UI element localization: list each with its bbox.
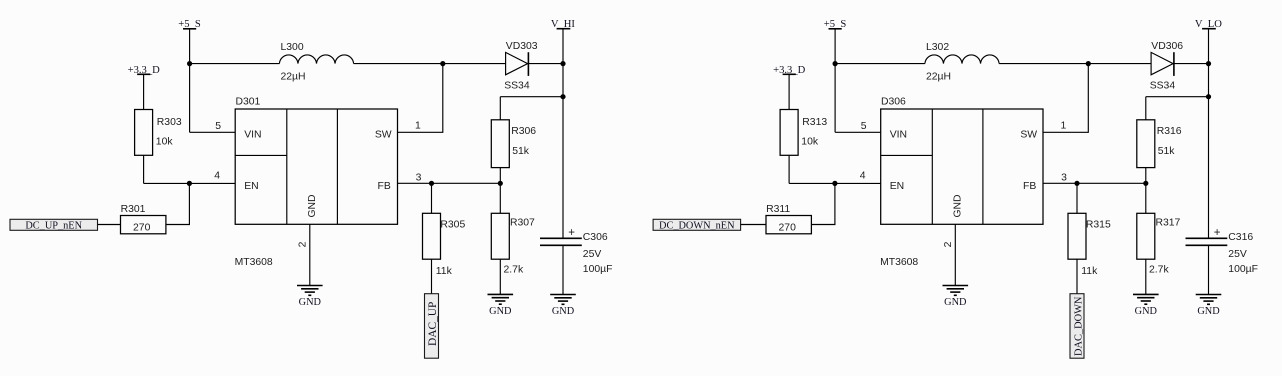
wire FB to R315 [1076,183,1078,213]
svg-text:SS34: SS34 [1150,80,1176,91]
svg-text:GND: GND [953,194,964,217]
svg-text:11k: 11k [1081,266,1098,277]
svg-text:MT3608: MT3608 [235,257,273,268]
wire label to R311 [741,224,766,226]
resistor R316 51k [1137,120,1182,168]
svg-text:3: 3 [1061,172,1067,183]
svg-text:C306: C306 [583,232,608,243]
wire VIN pin 5 horizontal [835,131,881,133]
svg-text:GND: GND [1197,306,1220,317]
wire V_HI to R306 [500,96,563,98]
svg-text:5: 5 [215,121,221,132]
svg-text:DAC_UP: DAC_UP [427,302,439,346]
svg-text:R313: R313 [802,117,827,128]
svg-text:51k: 51k [512,146,530,157]
power flag +5_S [824,19,847,30]
wire +5_S vertical to VIN [189,29,191,133]
svg-text:R315: R315 [1086,219,1111,230]
wire +3.3_D to R313 [788,74,790,109]
svg-text:51k: 51k [1158,146,1176,157]
wire C306 to ground [562,245,564,294]
net label DC_DOWN_nEN [653,219,741,231]
wire FB pin 3 horizontal [1043,182,1146,184]
svg-text:GND: GND [489,306,512,317]
svg-text:1: 1 [415,121,421,132]
svg-text:DC_DOWN_nEN: DC_DOWN_nEN [659,221,735,232]
wire EN pin 4 horizontal [789,182,881,184]
junction node +5_S / inductor [187,61,192,66]
wire R313 to EN [788,155,790,183]
wire V_HI vertical to capacitor [562,29,564,239]
svg-text:4: 4 [860,170,866,181]
power flag +3.3_D [773,65,806,76]
op-amp / converter IC D306 MT3608 [880,97,1043,268]
svg-text:VD306: VD306 [1151,41,1183,52]
ground GND under D306 [943,286,969,309]
resistor R305 11k [423,213,466,277]
svg-text:GND: GND [307,194,318,217]
wire FB to R305 [431,183,433,213]
junction FB / R315 [1074,181,1079,186]
wire diode to V_LO [1174,63,1209,65]
svg-text:L300: L300 [281,42,304,53]
resistor R315 11k [1068,213,1111,277]
wire inductor to diode [354,63,506,65]
junction node SW [440,61,445,66]
svg-text:FB: FB [1023,181,1036,192]
ground GND under C306 [550,295,576,318]
wire V_LO vertical to capacitor [1208,29,1210,239]
resistor R311 270 [766,204,811,234]
resistor R307 2.7k [491,213,535,275]
svg-text:2: 2 [298,241,309,247]
inductor L300 22uH [279,42,353,82]
svg-text:10k: 10k [801,137,819,148]
capacitor C306 25V 100uF [540,227,612,275]
svg-text:R306: R306 [511,126,536,137]
svg-text:R316: R316 [1157,126,1182,137]
svg-text:VIN: VIN [890,130,907,141]
svg-text:R301: R301 [121,204,146,215]
svg-text:GND: GND [1135,306,1158,317]
wire C316 to ground [1208,245,1210,294]
wire diode to V_HI [528,63,563,65]
svg-text:25V: 25V [583,249,602,260]
wire EN pin 4 horizontal [144,182,236,184]
wire FB to R307 [499,183,501,213]
wire GND pin 2 [309,224,311,285]
junction node +5_S / inductor [833,61,838,66]
op-amp / converter IC D301 MT3608 [235,97,398,268]
resistor R301 270 [121,204,166,234]
svg-text:+: + [568,227,575,239]
svg-text:100µF: 100µF [583,264,613,275]
svg-text:270: 270 [133,222,151,233]
svg-text:VD303: VD303 [506,41,538,52]
svg-text:5: 5 [861,121,867,132]
svg-text:FB: FB [378,181,391,192]
resistor R303 10k [135,110,182,156]
wire SW pin 1 [398,64,443,133]
wire R305 to DAC_UP [431,259,433,294]
svg-text:MT3608: MT3608 [880,257,918,268]
wire R316 to FB [1145,168,1147,184]
svg-text:L302: L302 [926,42,949,53]
ground GND under R317 [1133,294,1159,317]
svg-text:22µH: 22µH [926,72,951,83]
svg-text:SW: SW [375,130,392,141]
junction EN node [187,181,192,186]
wire R306 to FB [499,168,501,184]
wire inductor to diode [999,63,1151,65]
svg-text:22µH: 22µH [281,72,306,83]
junction node SW [1086,61,1091,66]
power flag +3.3_D [128,65,161,76]
wire +3.3_D to R303 [143,74,145,109]
junction V_HI / feedback divider [560,94,565,99]
svg-text:100µF: 100µF [1228,264,1258,275]
wire down to R316 [1145,97,1147,120]
wire R303 to EN [143,155,145,183]
wire R311 to EN node [811,183,835,224]
svg-text:GND: GND [299,297,322,308]
resistor R306 51k [491,120,536,168]
svg-text:SW: SW [1020,130,1037,141]
power flag +5_S [178,19,201,30]
wire FB to R317 [1145,183,1147,213]
junction diode / V_LO [1206,61,1211,66]
wire FB pin 3 horizontal [398,182,501,184]
wire +5_S to inductor [835,63,925,65]
svg-text:1: 1 [1061,121,1067,132]
inductor L302 22uH [925,42,999,82]
junction FB / R317 [1143,181,1148,186]
resistor R317 2.7k [1137,213,1181,275]
svg-text:D306: D306 [881,97,906,108]
wire down to R306 [499,97,501,120]
svg-text:C316: C316 [1228,232,1253,243]
net label DAC_DOWN [1070,294,1084,359]
wire R301 to EN node [166,183,190,224]
wire GND pin 2 [954,224,956,285]
wire R315 to DAC_DOWN [1076,259,1078,294]
capacitor C316 25V 100uF [1186,227,1258,275]
svg-text:R305: R305 [440,219,465,230]
wire label to R301 [98,224,121,226]
wire R317 to ground [1145,259,1147,294]
svg-text:R303: R303 [157,117,182,128]
wire +5_S vertical to VIN [834,29,836,133]
wire V_LO to R316 [1146,96,1209,98]
svg-text:R317: R317 [1156,218,1181,229]
junction FB / R307 [498,181,503,186]
ground GND under C316 [1196,295,1222,318]
svg-text:GND: GND [552,306,575,317]
svg-text:VIN: VIN [244,130,261,141]
svg-text:10k: 10k [156,137,174,148]
diode VD306 SS34 [1150,41,1184,91]
net label DAC_UP [425,294,439,359]
svg-text:DC_UP_nEN: DC_UP_nEN [25,221,82,232]
svg-text:D301: D301 [236,97,261,108]
svg-text:DAC_DOWN: DAC_DOWN [1073,296,1084,356]
svg-text:GND: GND [944,297,967,308]
svg-text:11k: 11k [436,266,453,277]
power flag V_LO [1195,19,1222,30]
wire +5_S to inductor [190,63,280,65]
svg-text:R311: R311 [766,204,790,215]
svg-text:2.7k: 2.7k [504,264,524,275]
svg-text:SS34: SS34 [504,80,530,91]
wire VIN pin 5 horizontal [190,131,236,133]
ground GND under D301 [297,286,323,309]
junction V_LO / feedback divider [1206,94,1211,99]
diode VD303 SS34 [504,41,538,91]
svg-text:+: + [1214,227,1221,239]
svg-text:2.7k: 2.7k [1149,264,1169,275]
junction diode / V_HI [560,61,565,66]
junction EN node [832,181,837,186]
svg-text:3: 3 [416,172,422,183]
svg-text:270: 270 [779,222,797,233]
svg-text:25V: 25V [1228,249,1247,260]
wire R307 to ground [499,259,501,294]
svg-text:EN: EN [244,181,258,192]
wire SW pin 1 [1043,64,1088,133]
net label DC_UP_nEN [10,219,98,231]
svg-text:4: 4 [214,170,220,181]
power flag V_HI [551,19,576,30]
resistor R313 10k [780,110,827,156]
junction FB / R305 [429,181,434,186]
svg-text:R307: R307 [510,218,535,229]
ground GND under R307 [488,294,514,317]
svg-text:EN: EN [890,181,904,192]
svg-text:2: 2 [943,241,954,247]
